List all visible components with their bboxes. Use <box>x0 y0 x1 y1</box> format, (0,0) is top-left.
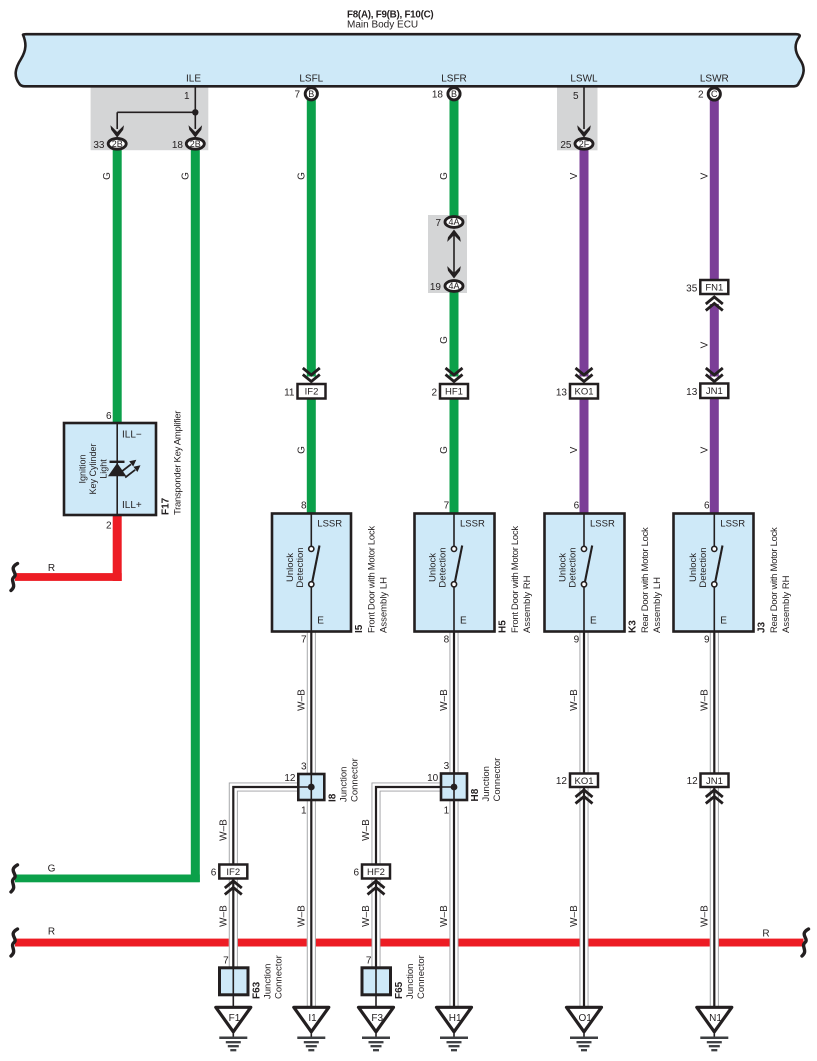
svg-text:6: 6 <box>211 868 217 879</box>
svg-text:LSFR: LSFR <box>441 74 467 85</box>
svg-text:FN1: FN1 <box>705 283 723 294</box>
svg-text:Junction: Junction <box>338 767 349 802</box>
pin circle C (2 LSWR) <box>708 88 720 100</box>
svg-text:N1: N1 <box>709 1013 722 1024</box>
svg-text:V: V <box>699 172 710 179</box>
svg-text:3: 3 <box>301 762 307 773</box>
svg-text:Junction: Junction <box>405 964 416 999</box>
svg-text:7: 7 <box>301 635 307 646</box>
svg-text:18: 18 <box>432 90 444 101</box>
svg-text:G: G <box>102 172 113 180</box>
svg-text:LSWR: LSWR <box>700 74 729 85</box>
svg-text:2B: 2B <box>190 139 201 149</box>
wire R red F17 pin 2 vertical <box>113 515 122 581</box>
svg-text:W–B: W–B <box>699 689 710 711</box>
connector box IF2 pin 11 <box>298 384 326 399</box>
chevron arrow up into HF2 (6) <box>368 881 385 895</box>
wire W-B LSFR lower (H8 to ground H1) <box>450 800 459 1008</box>
svg-text:6: 6 <box>353 868 359 879</box>
wire 4A interconnect LSFR <box>453 233 455 275</box>
svg-text:G: G <box>48 863 56 874</box>
arrowhead into 2B pin 33 <box>110 125 124 137</box>
svg-text:Assembly LH: Assembly LH <box>379 577 390 633</box>
svg-text:8: 8 <box>301 501 307 512</box>
svg-text:10: 10 <box>427 773 439 784</box>
LED triangle F17 <box>108 463 126 476</box>
svg-text:12: 12 <box>556 776 568 787</box>
wire G green LSFR lower <box>450 396 459 515</box>
LED light arrow 1 <box>121 464 131 472</box>
wire ILE pin 1 stub <box>194 87 196 113</box>
gray harness box ILE <box>91 87 209 151</box>
svg-text:LSFL: LSFL <box>299 74 323 85</box>
wire G green col2 vertical (18 2B down) <box>191 150 200 882</box>
junction connector H8 <box>441 774 467 801</box>
svg-text:Key Cylinder: Key Cylinder <box>88 443 98 494</box>
wire V purple LSWL lower <box>580 396 589 515</box>
svg-text:Rear Door with Motor Lock: Rear Door with Motor Lock <box>640 527 651 633</box>
svg-text:E: E <box>317 616 324 627</box>
wire LSWL pin 5 stub <box>583 87 585 130</box>
wire V purple LSWR lower <box>710 396 719 515</box>
LED light arrow 2 <box>125 470 135 478</box>
svg-text:H1: H1 <box>449 1013 462 1024</box>
svg-text:6: 6 <box>106 411 112 422</box>
pin circle B (18 LSFR) <box>448 88 460 100</box>
svg-text:W–B: W–B <box>361 819 372 841</box>
svg-text:G: G <box>296 446 307 454</box>
junction connector I8 <box>298 774 324 800</box>
svg-text:ILL+: ILL+ <box>122 500 142 511</box>
svg-text:2: 2 <box>106 521 112 532</box>
pin oval 2B (18) <box>186 138 204 149</box>
wire arrow stem right 2B <box>194 112 196 129</box>
component J3 LSSR switch box <box>674 514 754 632</box>
svg-text:11: 11 <box>284 387 295 398</box>
svg-text:I8: I8 <box>327 793 338 802</box>
svg-text:7: 7 <box>435 218 441 229</box>
wavy end R bus left <box>11 929 18 956</box>
svg-text:F3: F3 <box>371 1013 383 1024</box>
svg-text:Junction: Junction <box>263 964 274 999</box>
junction connector F63 <box>220 968 249 995</box>
svg-text:E: E <box>590 616 597 627</box>
wire ILE branch horizontal <box>117 111 195 113</box>
wire W-B branch HF2 to F65 <box>372 879 381 969</box>
svg-text:LSSR: LSSR <box>720 519 745 530</box>
svg-text:G: G <box>439 172 450 180</box>
svg-text:W–B: W–B <box>218 905 229 927</box>
svg-text:2: 2 <box>431 387 437 398</box>
svg-text:ILE: ILE <box>186 74 201 85</box>
svg-text:W–B: W–B <box>439 689 450 711</box>
svg-text:V: V <box>569 446 580 453</box>
svg-text:I1: I1 <box>308 1013 317 1024</box>
connector box HF2 pin 6 <box>362 865 390 879</box>
svg-text:W–B: W–B <box>361 905 372 927</box>
svg-text:Ignition: Ignition <box>78 454 88 483</box>
pin circle B (7 LSFL) <box>305 88 317 100</box>
svg-text:W–B: W–B <box>569 905 580 927</box>
switch I5 unlock detection <box>309 514 320 632</box>
arrowhead up into 4A pin 7 <box>447 230 461 242</box>
svg-text:F1: F1 <box>229 1013 241 1024</box>
svg-text:R: R <box>48 563 55 574</box>
svg-text:KO1: KO1 <box>574 387 593 398</box>
svg-text:Assembly RH: Assembly RH <box>781 575 792 633</box>
svg-text:25: 25 <box>560 140 572 151</box>
ground I1 <box>294 1007 329 1050</box>
wire V purple LSWL upper <box>580 149 589 377</box>
wire F17 internal <box>116 423 118 515</box>
ground O1 <box>567 1007 602 1050</box>
svg-text:W–B: W–B <box>569 689 580 711</box>
svg-text:V: V <box>699 341 710 348</box>
wire G green LSFL upper <box>307 99 316 377</box>
svg-text:E: E <box>460 616 467 627</box>
wire R red F17 horizontal <box>15 573 122 581</box>
wire W-B branch H8 pin 10 to HF2 (corner) <box>372 783 442 866</box>
wire R red bus bottom <box>15 939 804 947</box>
pin oval 4A (7) <box>445 217 463 228</box>
ground F3 <box>359 1007 394 1050</box>
svg-text:H8: H8 <box>470 788 481 801</box>
svg-text:35: 35 <box>686 283 698 294</box>
pin oval 2F (25) <box>575 138 593 149</box>
svg-text:HF1: HF1 <box>445 387 463 398</box>
svg-text:Connector: Connector <box>416 955 427 999</box>
svg-text:Assembly LH: Assembly LH <box>652 577 663 633</box>
svg-text:F63: F63 <box>252 981 263 999</box>
svg-text:Connector: Connector <box>349 758 360 802</box>
svg-text:6: 6 <box>704 501 710 512</box>
switch K3 unlock detection <box>581 514 592 632</box>
svg-text:Detection: Detection <box>698 547 709 587</box>
svg-text:O1: O1 <box>579 1013 593 1024</box>
wire G green LSFL lower <box>307 396 316 514</box>
junction connector F65 <box>362 968 391 995</box>
svg-text:LSWL: LSWL <box>570 74 598 85</box>
svg-text:V: V <box>569 172 580 179</box>
svg-text:V: V <box>699 446 710 453</box>
svg-text:4A: 4A <box>448 281 459 291</box>
svg-text:7: 7 <box>294 90 300 101</box>
svg-text:R: R <box>48 927 55 938</box>
wire W-B branch IF2 to F63 <box>229 879 238 969</box>
chevron arrow up into FN1 <box>706 297 723 311</box>
arrowhead down into 4A pin 19 <box>447 266 461 278</box>
svg-text:8: 8 <box>444 635 450 646</box>
chevron arrow into JN1 (13) <box>706 368 723 382</box>
svg-text:H5: H5 <box>498 620 509 633</box>
svg-text:33: 33 <box>93 140 105 151</box>
svg-text:9: 9 <box>704 635 710 646</box>
chevron arrow up into JN1 (12) <box>706 790 723 804</box>
svg-text:1: 1 <box>301 806 307 817</box>
wire W-B LSWR upper (J3 to JN1) <box>710 632 719 775</box>
svg-text:6: 6 <box>574 501 580 512</box>
LED cathode bar F17 <box>110 461 125 463</box>
ECU band F8/F9/F10 Main Body ECU <box>16 34 804 86</box>
chevron arrow up into KO1 (12) <box>576 790 593 804</box>
node junction dot ILE <box>192 109 198 115</box>
switch J3 unlock detection <box>712 514 723 632</box>
wire W-B LSFL lower (I8 to ground I1) <box>307 800 316 1008</box>
svg-text:B: B <box>451 89 457 99</box>
chevron arrow into IF2 (11) <box>303 368 320 382</box>
svg-text:12: 12 <box>284 773 296 784</box>
svg-text:W–B: W–B <box>439 905 450 927</box>
wire arrow stem left 2B <box>116 112 118 129</box>
svg-text:J3: J3 <box>757 621 768 633</box>
wire G green col2 horizontal to left edge <box>15 875 200 883</box>
svg-text:2F: 2F <box>579 139 590 149</box>
svg-text:HF2: HF2 <box>367 867 385 878</box>
svg-text:Assembly RH: Assembly RH <box>522 575 533 633</box>
ground F1 <box>216 1007 251 1050</box>
wire V purple LSWR upper <box>710 99 719 281</box>
svg-text:Junction: Junction <box>481 766 492 801</box>
svg-text:12: 12 <box>687 776 699 787</box>
svg-text:E: E <box>720 616 727 627</box>
svg-text:W–B: W–B <box>699 905 710 927</box>
svg-text:13: 13 <box>686 387 698 398</box>
svg-text:K3: K3 <box>628 620 639 633</box>
wire W-B LSWL lower (KO1 to ground O1) <box>580 787 589 1008</box>
component K3 LSSR switch box <box>545 514 625 632</box>
svg-text:G: G <box>439 336 450 344</box>
svg-text:7: 7 <box>366 956 372 967</box>
connector box KO1 pin 12 <box>570 774 598 788</box>
svg-text:JN1: JN1 <box>706 776 723 787</box>
connector box JN1 pin 13 <box>700 384 728 399</box>
wire W-B LSFL upper (I5 to I8) <box>307 632 316 774</box>
svg-text:Detection: Detection <box>295 547 306 587</box>
svg-text:Front Door with Motor Lock: Front Door with Motor Lock <box>367 526 378 633</box>
wire W-B LSWR lower (JN1 to ground N1) <box>710 788 719 1009</box>
svg-text:1: 1 <box>444 806 450 817</box>
pin oval 2B (33) <box>108 138 126 149</box>
svg-text:2B: 2B <box>112 139 123 149</box>
svg-text:F17: F17 <box>161 497 172 515</box>
connector box KO1 pin 13 <box>570 384 598 399</box>
wire G green LSFR upper <box>450 99 459 217</box>
arrowhead into 2F pin 25 <box>577 125 591 137</box>
wire G green LSFR middle <box>450 291 459 377</box>
svg-text:Connector: Connector <box>274 955 285 999</box>
wire W-B branch I8 pin 12 to IF2 (corner) <box>229 783 298 866</box>
wire G green col1 (33 2B to F17 pin 6) <box>113 150 122 424</box>
wire F63 to ground F1 <box>232 993 234 1008</box>
svg-text:13: 13 <box>556 387 568 398</box>
svg-text:JN1: JN1 <box>706 386 723 397</box>
connector box HF1 pin 2 <box>440 384 468 399</box>
svg-text:G: G <box>296 172 307 180</box>
gray harness box LSWL <box>557 87 598 151</box>
svg-text:3: 3 <box>444 761 450 772</box>
svg-text:IF2: IF2 <box>226 867 240 878</box>
chevron arrow into KO1 (13) <box>576 368 593 382</box>
gray harness box LSFR 4A <box>428 215 467 293</box>
svg-text:Connector: Connector <box>492 758 503 802</box>
svg-text:W–B: W–B <box>218 819 229 841</box>
svg-text:Transponder Key Amplifier: Transponder Key Amplifier <box>173 411 184 515</box>
svg-text:18: 18 <box>172 140 184 151</box>
svg-text:5: 5 <box>573 91 579 102</box>
component F17 Ignition Key Cylinder Light box <box>64 423 156 515</box>
wavy end R bus right <box>802 929 809 956</box>
wire V purple LSWR middle <box>710 304 719 377</box>
svg-text:LSSR: LSSR <box>590 519 615 530</box>
wavy end R wire F17 left <box>11 564 18 591</box>
wire F65 to ground F3 <box>375 993 377 1008</box>
svg-text:F65: F65 <box>394 981 405 999</box>
svg-text:KO1: KO1 <box>574 776 593 787</box>
svg-text:G: G <box>439 446 450 454</box>
pin oval 4A (19) <box>445 281 463 292</box>
component H5 LSSR switch box <box>415 514 495 632</box>
wire W-B LSFR upper (H5 to H8) <box>450 632 459 774</box>
svg-text:W–B: W–B <box>296 905 307 927</box>
svg-text:2: 2 <box>698 90 704 101</box>
svg-text:7: 7 <box>444 501 450 512</box>
svg-text:G: G <box>180 172 191 180</box>
svg-text:R: R <box>762 929 769 940</box>
chevron arrow into HF1 (2) <box>446 368 463 382</box>
svg-text:4A: 4A <box>448 217 459 227</box>
ground N1 <box>697 1007 732 1050</box>
connector box JN1 pin 12 <box>701 774 729 788</box>
svg-text:ILL−: ILL− <box>122 430 142 441</box>
svg-text:1: 1 <box>184 91 190 102</box>
connector box IF2 pin 6 <box>219 865 247 879</box>
svg-text:Rear Door with Motor Lock: Rear Door with Motor Lock <box>769 527 780 633</box>
chevron arrow up into IF2 (6) <box>225 881 242 895</box>
wire W-B LSWL upper (K3 to KO1) <box>580 632 589 774</box>
switch H5 unlock detection <box>451 514 462 632</box>
ground H1 <box>437 1007 472 1050</box>
svg-text:LSSR: LSSR <box>460 519 485 530</box>
svg-text:Light: Light <box>99 459 109 479</box>
svg-text:7: 7 <box>223 956 229 967</box>
arrowhead into 2B pin 18 <box>189 125 203 137</box>
svg-text:W–B: W–B <box>296 689 307 711</box>
svg-text:Front Door with Motor Lock: Front Door with Motor Lock <box>510 526 521 633</box>
connector box FN1 pin 35 <box>700 280 728 294</box>
component I5 LSSR switch box <box>272 514 351 632</box>
svg-text:LSSR: LSSR <box>317 519 342 530</box>
svg-text:Main Body ECU: Main Body ECU <box>347 20 418 31</box>
wavy end G wire left <box>11 865 18 892</box>
svg-text:B: B <box>308 89 314 99</box>
svg-text:9: 9 <box>574 635 580 646</box>
svg-text:I5: I5 <box>354 624 365 633</box>
svg-text:Detection: Detection <box>438 547 449 587</box>
svg-text:IF2: IF2 <box>305 387 319 398</box>
svg-text:Detection: Detection <box>568 547 579 587</box>
svg-text:C: C <box>711 89 718 99</box>
svg-text:19: 19 <box>430 282 442 293</box>
